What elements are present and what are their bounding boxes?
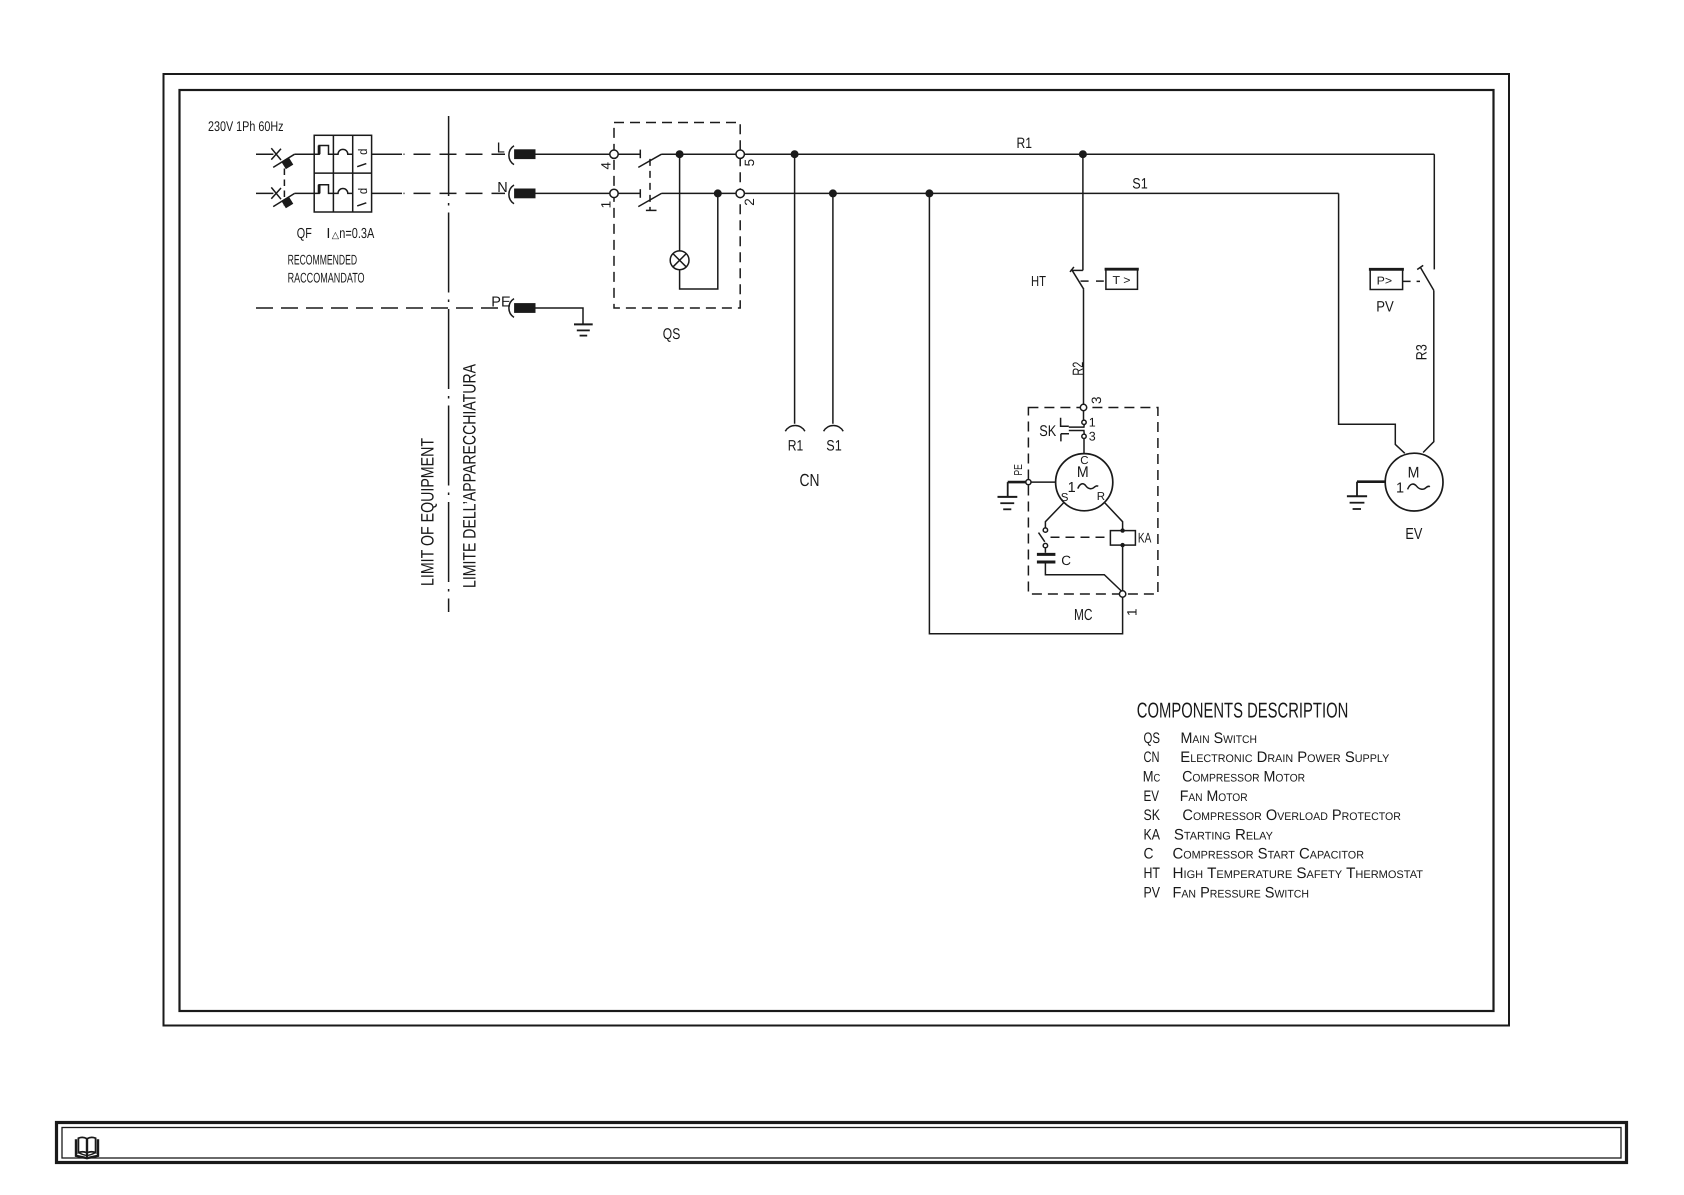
wire lamp drop	[679, 154, 681, 251]
circuit breaker QF mechanical link (dashed)	[283, 169, 285, 206]
wire net R1 drop to PV	[1433, 154, 1435, 269]
node: junction on pole2 wire (lamp return)	[714, 189, 722, 197]
svg-text:Main Switch: Main Switch	[1181, 730, 1258, 747]
svg-text:T >: T >	[1113, 275, 1131, 287]
wire L connector to QS terminal 4	[536, 153, 610, 155]
svg-text:1: 1	[598, 201, 613, 209]
svg-text:M: M	[1408, 465, 1420, 482]
QS terminal 4	[610, 150, 618, 158]
wire net R3 (PV to EV motor)	[1423, 290, 1434, 452]
wire PE terminal to ground	[1008, 481, 1026, 484]
wire SK to motor C terminal	[1083, 439, 1085, 454]
svg-text:CN: CN	[1144, 749, 1160, 766]
wire L dashed segment to connector	[372, 153, 402, 155]
wire PE connector to ground	[536, 308, 584, 324]
circuit breaker QF body box	[314, 135, 371, 212]
QS terminal 1	[610, 189, 618, 197]
circuit breaker QF pole N contact X	[271, 187, 281, 199]
svg-text:5: 5	[742, 159, 757, 167]
legend: components description	[1137, 699, 1423, 902]
wire N connector to QS terminal 1	[536, 192, 610, 194]
svg-text:CN: CN	[800, 470, 820, 490]
svg-text:PE: PE	[491, 294, 511, 310]
ground (MC)	[998, 496, 1018, 498]
svg-text:Compressor Motor: Compressor Motor	[1182, 769, 1305, 786]
svg-text:Starting Relay: Starting Relay	[1174, 826, 1274, 843]
MC terminal 3	[1080, 404, 1086, 410]
svg-text:C: C	[1144, 846, 1154, 863]
QS pole 1 fixed contact tick	[639, 150, 641, 159]
motor label ~	[1078, 484, 1098, 489]
svg-text:4: 4	[598, 162, 613, 170]
svg-text:Electronic Drain Power Supply: Electronic Drain Power Supply	[1180, 749, 1390, 766]
overload protector SK contact 1	[1082, 420, 1086, 424]
wire net R2 (HT to MC terminal 3)	[1083, 289, 1085, 404]
wire R1 junction down to HT contact	[1082, 154, 1084, 270]
svg-text:3: 3	[1089, 430, 1096, 444]
ground (PE input)	[574, 323, 593, 325]
circuit breaker QF pole N trip element (filled square)	[281, 196, 293, 208]
svg-text:1: 1	[1089, 415, 1096, 429]
PV blade tick	[1417, 265, 1423, 269]
QF pole L thermal element	[314, 146, 333, 155]
svg-text:R3: R3	[1413, 344, 1430, 360]
thermostat HT blade	[1072, 269, 1084, 289]
svg-text:QS: QS	[663, 326, 681, 343]
pressure switch PV blade	[1420, 267, 1434, 290]
svg-text:PE: PE	[1013, 464, 1025, 476]
overload protector SK bimetal element	[1061, 418, 1069, 426]
connector PE socket arc	[509, 299, 514, 318]
svg-text:EV: EV	[1405, 526, 1422, 543]
start switch contact top	[1043, 528, 1047, 532]
svg-text:KA: KA	[1138, 530, 1152, 546]
starting relay KA coil box	[1110, 531, 1135, 546]
svg-text:C: C	[1061, 553, 1071, 568]
wire N dashed segment to connector	[372, 192, 402, 194]
capacitor C start capacitor	[1037, 553, 1056, 556]
svg-text:High Temperature Safety Thermo: High Temperature Safety Thermostat	[1173, 865, 1424, 882]
wire net R1 (top rail)	[744, 153, 1434, 155]
connector R1 (CN supply)	[785, 426, 805, 432]
svg-text:1: 1	[1396, 480, 1404, 496]
svg-text:PV: PV	[1144, 884, 1161, 901]
QS mechanical link (dashed) with handle tick	[649, 159, 651, 211]
svg-text:1: 1	[1124, 608, 1139, 616]
QF pole N thermal element	[314, 185, 333, 194]
svg-text:SK: SK	[1039, 423, 1057, 440]
svg-text:d: d	[356, 188, 370, 194]
svg-text:QF: QF	[297, 226, 312, 242]
QS pole 1 wire from terminal 4	[618, 153, 640, 155]
wire motor S lead to start switch	[1045, 502, 1064, 528]
svg-text:Mc: Mc	[1143, 769, 1161, 786]
connector L socket arc	[509, 146, 514, 165]
svg-text:HT: HT	[1031, 274, 1046, 290]
limit of equipment boundary line (dash-dot)	[448, 116, 450, 612]
node: junction R1 to HT	[1079, 150, 1087, 158]
svg-text:Compressor Start Capacitor: Compressor Start Capacitor	[1173, 846, 1365, 863]
svg-text:2: 2	[742, 198, 757, 206]
wire L from QF blade to QF box	[294, 153, 314, 155]
circuit breaker QF pole L contact X	[271, 148, 281, 160]
svg-text:KA: KA	[1144, 826, 1161, 843]
mechanical link start switch to KA (dashed)	[1051, 536, 1111, 538]
node: KA top pin	[1120, 528, 1124, 532]
motor M1~ (MC) body	[1056, 454, 1113, 511]
connector S1 (CN supply)	[824, 426, 844, 432]
svg-text:1: 1	[1068, 480, 1076, 496]
QS pole 1 blade	[638, 154, 661, 167]
overload protector SK contact 3	[1082, 434, 1086, 438]
QS pole 2 fixed contact tick	[639, 189, 641, 198]
wire N from QF blade to QF box	[294, 192, 314, 194]
QF pole L magnetic element	[333, 149, 352, 154]
circuit breaker QF pole N blade	[273, 194, 294, 207]
wire KA to terminal 1	[1122, 545, 1124, 591]
wire lamp return to pole2	[680, 193, 718, 289]
svg-text:I: I	[326, 226, 330, 242]
PV actuator link (dashed)	[1403, 280, 1420, 282]
pressure switch PV sensing box P>	[1370, 270, 1402, 290]
wire capacitor to terminal 1	[1045, 564, 1122, 593]
svg-text:d: d	[356, 149, 370, 155]
svg-text:MC: MC	[1074, 607, 1093, 624]
svg-text:COMPONENTS DESCRIPTION: COMPONENTS DESCRIPTION	[1137, 699, 1349, 723]
node: junction S1 to CN	[829, 189, 837, 197]
connector N socket arc	[509, 185, 514, 204]
connector PE plug (filled)	[514, 303, 535, 313]
svg-text:LIMITE DELL’APPARECCHIATURA: LIMITE DELL’APPARECCHIATURA	[460, 364, 480, 588]
wire PE terminal to motor	[1031, 481, 1056, 483]
MC terminal 1	[1119, 591, 1125, 597]
node: junction on pole1 wire (lamp tap)	[676, 150, 684, 158]
start switch contact bottom	[1043, 543, 1047, 547]
connector N plug (filled)	[514, 189, 535, 199]
wire EV motor to ground	[1357, 480, 1385, 483]
compressor motor MC enclosure (dashed box)	[1028, 408, 1158, 595]
svg-text:RACCOMANDATO: RACCOMANDATO	[288, 269, 365, 285]
svg-text:M: M	[1077, 464, 1089, 481]
wire motor R lead to KA	[1104, 502, 1122, 530]
svg-text:Fan Pressure Switch: Fan Pressure Switch	[1173, 884, 1310, 901]
indicator lamp (QS)	[670, 251, 689, 270]
circuit breaker QF pole L trip element (filled square)	[281, 157, 293, 169]
QS pole 1 wire to terminal 5	[662, 153, 737, 155]
EV motor label ~	[1408, 484, 1430, 489]
svg-text:Compressor Overload Protector: Compressor Overload Protector	[1182, 807, 1401, 824]
fan motor EV body M1~	[1385, 453, 1443, 511]
svg-text:R1: R1	[1017, 135, 1033, 152]
ground (EV)	[1347, 495, 1367, 497]
node: junction S1 to MC return	[925, 189, 933, 197]
MC PE terminal	[1026, 480, 1031, 485]
svg-text:LIMIT OF EQUIPMENT: LIMIT OF EQUIPMENT	[417, 438, 437, 586]
wire CN S1 drop	[832, 193, 834, 423]
svg-text:PV: PV	[1376, 298, 1394, 315]
QS pole 2 blade	[638, 193, 661, 206]
svg-text:HT: HT	[1144, 865, 1161, 882]
svg-text:P>: P>	[1377, 275, 1393, 287]
svg-text:230V 1Ph 60Hz: 230V 1Ph 60Hz	[208, 118, 284, 134]
svg-text:n=0.3A: n=0.3A	[339, 226, 374, 242]
svg-text:R2: R2	[1070, 362, 1087, 376]
wire CN R1 drop	[794, 154, 796, 424]
HT actuator dash	[1096, 280, 1104, 282]
wire PE dashed segment	[256, 307, 505, 309]
svg-text:QS: QS	[1144, 730, 1161, 747]
thermostat HT sensing element box T>	[1106, 270, 1138, 290]
book icon (manual symbol)	[76, 1137, 98, 1158]
svg-text:S1: S1	[1132, 175, 1148, 192]
QS terminal 2	[736, 189, 744, 197]
svg-text:EV: EV	[1144, 788, 1160, 805]
node: junction R1 to CN	[791, 150, 799, 158]
svg-text:N: N	[497, 180, 507, 196]
QS pole 2 wire to terminal 2	[662, 192, 737, 194]
wire start switch to capacitor	[1044, 548, 1046, 553]
QS terminal 5	[736, 150, 744, 158]
wire terminal 3 to SK	[1083, 411, 1085, 420]
svg-text:R: R	[1097, 491, 1105, 503]
wire net S1 (second rail)	[744, 192, 1338, 194]
svg-text:L: L	[497, 141, 505, 157]
circuit breaker QF pole L blade	[273, 154, 294, 167]
QS pole 2 wire from terminal 1	[618, 192, 640, 194]
wire N supply lead-in	[256, 192, 273, 194]
connector L plug (filled)	[514, 149, 535, 159]
wire S1 to EV motor (left branch)	[1339, 193, 1405, 453]
wire MC return (S1 junction down, under MC, up to terminal 1)	[929, 193, 1122, 633]
svg-text:R1: R1	[788, 438, 804, 455]
thermostat HT fixed contact	[1071, 269, 1083, 271]
svg-text:SK: SK	[1144, 807, 1161, 824]
QF pole N magnetic element	[333, 189, 352, 194]
svg-text:S1: S1	[826, 438, 842, 455]
svg-text:S: S	[1061, 492, 1069, 504]
main switch QS enclosure (dashed box)	[614, 123, 740, 309]
svg-text:3: 3	[1089, 396, 1104, 404]
wire L supply lead-in	[256, 153, 273, 155]
HT blade tick	[1081, 280, 1089, 282]
svg-text:RECOMMENDED: RECOMMENDED	[288, 251, 358, 267]
node: KA bottom pin	[1120, 543, 1124, 547]
svg-text:Fan Motor: Fan Motor	[1180, 788, 1248, 805]
start switch blade	[1039, 533, 1045, 542]
